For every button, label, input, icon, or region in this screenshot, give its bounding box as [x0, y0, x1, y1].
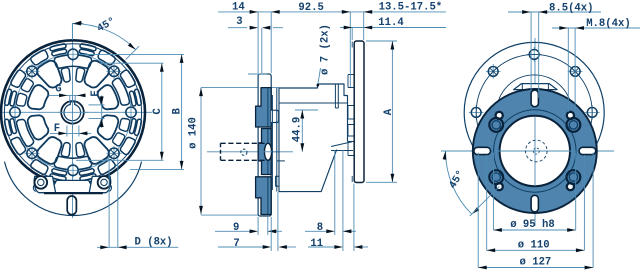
- node: shaft bore ellipse: [264, 143, 271, 160]
- wire: middle view shaft centerline: [207, 151, 293, 153]
- node: dimension B: [80, 53, 184, 55]
- wire: body left face inner line: [276, 88, 278, 192]
- node: dimension 7: [270, 217, 272, 251]
- node: flange slots 8.5 4x: [531, 90, 538, 107]
- node: counterbored holes 4x: [567, 118, 581, 132]
- node: port stubs on mount face: [348, 74, 354, 76]
- node: right foot screw: [98, 176, 111, 189]
- svg-text:3: 3: [236, 16, 242, 28]
- node: bell back bolt circle: [476, 54, 592, 170]
- node: left foot ear: [33, 185, 35, 192]
- wire: ext line y74: [248, 73, 267, 75]
- node: bell flange boss right: [271, 110, 279, 122]
- node: shaft hidden outline: [221, 142, 267, 144]
- node: o7 hole section: [334, 84, 336, 108]
- node: left foot screw: [35, 176, 48, 189]
- wire: shaft centerline overlay: [263, 151, 279, 153]
- node: dimension o127: [477, 153, 479, 268]
- node: left view bolt circle o58: [15, 54, 131, 170]
- node: central bore outer circle: [61, 101, 84, 124]
- node: left foot: [34, 176, 55, 192]
- node: dimension 13.5-17.5: [363, 12, 365, 40]
- node: dimension 14: [257, 12, 259, 73]
- node: M8 tapped holes 4x: [567, 112, 574, 119]
- node: 45 deg dimension right view: [446, 151, 472, 214]
- wire: body port stub left: [277, 160, 285, 162]
- node: bell back hub circle: [497, 75, 572, 150]
- node: bell flange blue hub: [258, 129, 271, 175]
- wire: bell plate inner face lines: [267, 89, 269, 127]
- wire: left view vertical centerline: [72, 23, 74, 218]
- node: wheel middle slot ring: [21, 79, 33, 92]
- node: shaft end sketch: [526, 140, 548, 162]
- node: dimension F: [66, 126, 68, 137]
- node: dimension o95 h8: [492, 153, 494, 231]
- svg-text:11.4: 11.4: [378, 17, 404, 29]
- node: pump mount plate: [354, 41, 364, 183]
- svg-text:A: A: [383, 108, 395, 115]
- node: dimension 8.5 4x: [530, 12, 532, 91]
- node: pump flange blue disc: [473, 89, 597, 213]
- wire: skirt arc (bell housing o140 lower silhouette): [5, 162, 142, 215]
- node: dimension C: [100, 62, 164, 64]
- node: dimension o140: [201, 87, 279, 89]
- svg-text:M.8(4x): M.8(4x): [586, 18, 631, 30]
- node: top tab silhouette: [514, 84, 558, 90]
- node: dimension G: [49, 94, 84, 96]
- svg-text:ø 140: ø 140: [188, 117, 200, 149]
- wire: bore crosshair: [58, 111, 88, 113]
- node: dimension 3: [261, 28, 263, 73]
- node: right foot ear: [109, 185, 111, 192]
- node: dimension 44.9: [295, 109, 318, 111]
- node: bottom bell trapezoid: [50, 180, 96, 192]
- node: dimension 11.4: [351, 28, 353, 41]
- svg-text:F: F: [54, 123, 60, 135]
- svg-text:C: C: [152, 107, 164, 114]
- svg-text:92.5: 92.5: [298, 2, 323, 14]
- svg-text:8.5(4x): 8.5(4x): [549, 2, 594, 14]
- node: wheel rim slot ring: [52, 49, 67, 56]
- node: bell back screw holes: [587, 108, 597, 118]
- node: screw holes D 8x on o116 bolt circle: [68, 49, 78, 59]
- node: bell flange blue section top: [256, 88, 272, 127]
- node: bell flange plate outline: [258, 74, 271, 216]
- svg-text:E: E: [90, 90, 102, 96]
- node: dimension E: [89, 104, 105, 106]
- node: wheel top crown slot: [54, 55, 91, 68]
- node: central bore inner circle with keyway: [64, 102, 81, 121]
- node: dimension 9: [257, 217, 259, 235]
- node: wheel inner rim circle: [4, 44, 141, 181]
- node: flange spigot circle o95: [494, 110, 576, 192]
- wire: right view horizontal centerline: [441, 150, 614, 152]
- svg-text:ø 127: ø 127: [520, 257, 552, 269]
- wire: mounting face chord: [44, 192, 103, 194]
- node: 0 marking obround: [67, 196, 76, 215]
- node: bell flange blue section bottom: [256, 177, 272, 215]
- svg-text:7: 7: [233, 238, 239, 250]
- svg-text:D (8x): D (8x): [135, 237, 173, 249]
- svg-text:11: 11: [310, 238, 323, 250]
- svg-text:G: G: [55, 84, 61, 96]
- node: bell back outer circle: [464, 42, 604, 182]
- svg-text:13.5-17.5*: 13.5-17.5*: [379, 1, 443, 13]
- node: dimension D 8x: [108, 159, 110, 248]
- node: pump body outline: [279, 84, 348, 192]
- svg-text:8: 8: [317, 222, 323, 234]
- svg-text:ø 110: ø 110: [518, 240, 550, 252]
- svg-text:ø 7 (2x): ø 7 (2x): [319, 24, 331, 75]
- node: dimension A: [366, 40, 397, 42]
- wire: left view horizontal centerline: [1, 111, 153, 113]
- wire: right view bore crosshair overlay: [495, 150, 576, 152]
- svg-text:44.9: 44.9: [292, 117, 304, 142]
- svg-text:ø 95 h8: ø 95 h8: [510, 219, 555, 231]
- node: right foot: [89, 176, 110, 192]
- node: flange bore: [500, 116, 570, 186]
- node: body foot tab: [276, 176, 279, 186]
- node: dimension M8 4x: [567, 28, 569, 112]
- svg-text:9: 9: [233, 222, 239, 234]
- node: dimension o110: [486, 155, 488, 250]
- node: wheel bottom crown slot: [54, 156, 91, 169]
- node: dimension 92.5: [349, 12, 351, 87]
- node: dimension 11: [353, 184, 355, 252]
- wire: body seam line: [279, 102, 348, 104]
- wire: right view vertical centerline: [534, 38, 536, 226]
- wire: cone top lines: [331, 142, 352, 147]
- node: wheel inner kidney slots: [37, 61, 61, 88]
- node: dimension 8: [334, 150, 336, 235]
- svg-text:B: B: [171, 107, 183, 114]
- svg-text:14: 14: [232, 1, 245, 13]
- node: shaft center detail circle: [241, 149, 247, 155]
- node: wheel outer circle o144: [1, 40, 145, 184]
- node: 45 deg dimension left view: [71, 23, 73, 40]
